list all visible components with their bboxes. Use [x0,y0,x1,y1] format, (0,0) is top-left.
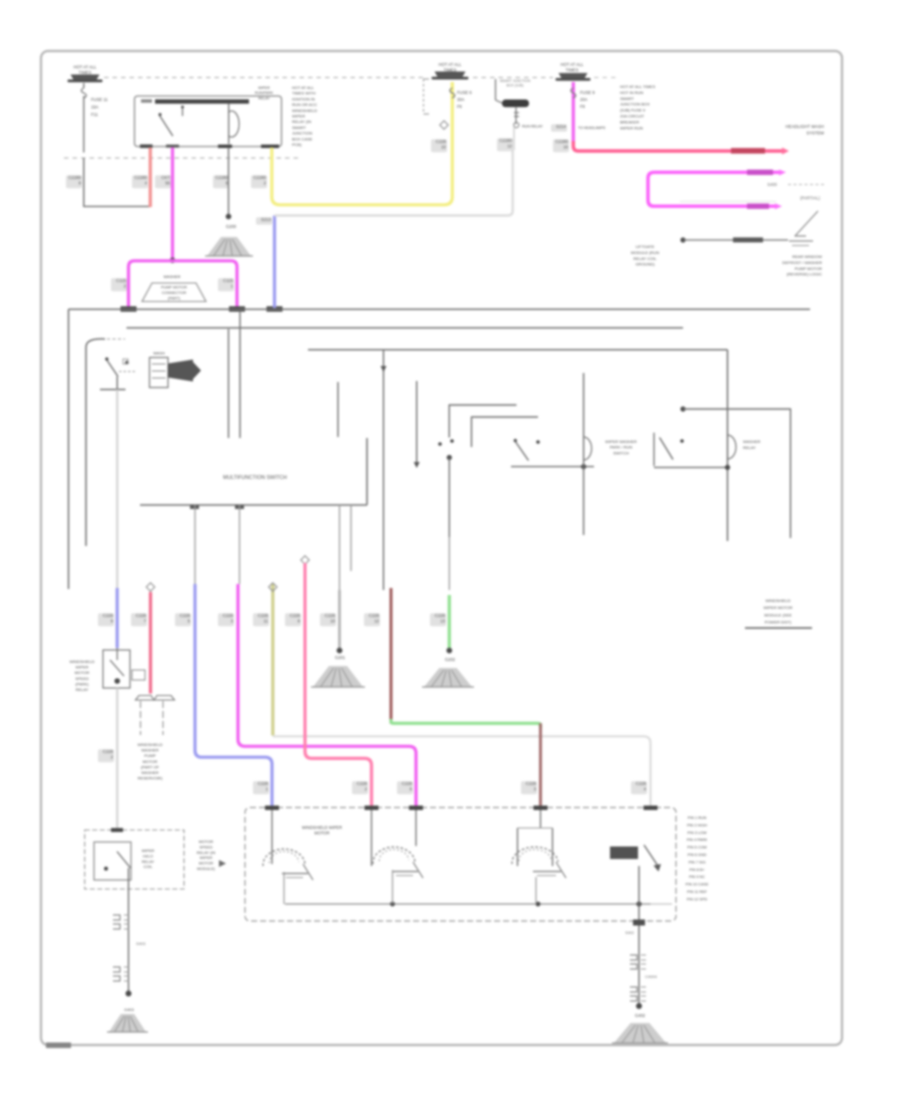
fuse F6 element on yellow wire [450,88,455,98]
svg-text:C228: C228 [258,613,269,618]
svg-text:SMART JUNCTION: SMART JUNCTION [500,79,531,83]
svg-text:PCB): PCB) [292,142,302,147]
svg-text:20A: 20A [580,97,588,102]
svg-text:WASHER: WASHER [743,439,761,444]
svg-text:WIPER: WIPER [200,855,213,860]
magenta leg side labels [111,278,127,291]
svg-text:30A: 30A [457,97,465,102]
black wire with splice dot to Z switch [680,237,685,242]
svg-text:C2280: C2280 [499,138,512,143]
svg-text:HEADLIGHT WASH: HEADLIGHT WASH [786,124,824,129]
svg-text:IGNITION IN: IGNITION IN [292,96,315,101]
svg-text:C228: C228 [436,139,447,144]
connector label on white wire [497,138,513,151]
dashed bracket left of power feed [423,79,425,114]
relay inner contact box [94,842,131,880]
svg-text:LIFTGATE: LIFTGATE [636,244,655,249]
svg-text:RESERVOIR): RESERVOIR) [138,776,163,781]
svg-text:C228: C228 [223,613,234,618]
magenta wire drop to wiper motor [218,613,234,626]
svg-text:SMART: SMART [620,96,634,101]
svg-text:F11: F11 [91,112,99,117]
svg-text:MOTOR: MOTOR [314,831,329,836]
svg-text:HOT AT ALL: HOT AT ALL [438,62,462,67]
svg-text:WASHER: WASHER [141,748,159,753]
relay box header dark label [155,99,249,103]
switch cluster L wire 1 [449,405,516,438]
svg-text:S402: S402 [625,931,634,935]
svg-text:HOT IN RUN: HOT IN RUN [620,90,643,95]
svg-text:REAR WINDOW: REAR WINDOW [792,254,822,259]
wire corner joining red wire [84,205,151,207]
svg-text:S403: S403 [136,941,146,946]
svg-text:CKT: CKT [161,175,170,180]
svg-text:G202: G202 [445,657,456,662]
svg-text:WASH: WASH [153,351,165,356]
svg-text:HOT AT ALL: HOT AT ALL [560,62,584,67]
svg-text:PIN 9 NC: PIN 9 NC [689,875,705,879]
svg-text:C228: C228 [402,781,413,786]
fuse F9 element on magenta wire [571,88,576,98]
olive wire drop [271,584,274,736]
svg-text:PUMP MOTOR: PUMP MOTOR [161,286,187,290]
svg-text:MOTOR: MOTOR [75,670,90,675]
black wire from relay to ground [228,148,230,216]
park switch inside box [610,847,638,860]
green wire drop to ground [448,595,451,648]
svg-text:C228: C228 [369,613,380,618]
ground symbol G200 [207,237,251,256]
connector label on magenta wire [553,139,569,152]
svg-text:SPEED: SPEED [75,676,89,681]
svg-text:FUSE 6: FUSE 6 [457,90,472,95]
dashed bus line from power feed to right [104,77,427,79]
svg-text:PIN 12 SPD: PIN 12 SPD [687,897,708,901]
svg-text:PIN 8 B+: PIN 8 B+ [689,868,705,872]
svg-text:PARK / RUN: PARK / RUN [610,445,633,450]
svg-text:TIMES WITH: TIMES WITH [292,91,316,96]
cam gauge symbol 2 [371,810,373,866]
hook wire to left switch [86,339,105,546]
svg-text:C228: C228 [636,781,647,786]
svg-text:C2280: C2280 [215,175,228,180]
svg-text:CONNECTOR: CONNECTOR [162,291,187,295]
svg-text:F9: F9 [580,104,586,109]
switch contacts lower left cluster [438,442,442,446]
svg-text:TO HEADLAMPS: TO HEADLAMPS [578,126,606,130]
left switch base line [100,389,126,391]
module bottom edge line [140,504,367,506]
dashed bus line second row left [64,157,302,159]
svg-text:G402: G402 [635,1013,646,1018]
svg-text:RELAY (IN: RELAY (IN [197,850,216,855]
svg-text:MOTOR: MOTOR [143,759,158,764]
svg-text:PIN 4 PARK: PIN 4 PARK [687,838,708,842]
ground symbol G201 [313,666,363,687]
stub wires below module bottom [194,505,196,584]
fuse F11 element [81,88,86,98]
svg-text:WIPER: WIPER [142,848,155,853]
svg-text:SWITCH: SWITCH [613,450,629,455]
svg-text:HI/LO: HI/LO [143,853,153,858]
svg-text:WIPER RUN: WIPER RUN [620,125,643,130]
svg-text:BREAKER: BREAKER [620,119,639,124]
svg-text:(REVERSE) LOGIC: (REVERSE) LOGIC [787,272,822,277]
dark red wire down into bottom box [539,723,542,807]
crimson wire drop to washer pump [149,592,152,694]
svg-text:MULTIFUNCTION SWITCH: MULTIFUNCTION SWITCH [223,475,287,481]
yellow wire from relay pin to fuse [272,82,453,205]
fuse F11 wire from power feed [83,83,85,88]
gray wire drop to ground [338,590,341,648]
svg-text:C228: C228 [290,613,301,618]
svg-text:WIPER: WIPER [292,114,305,119]
svg-text:PUMP MOTOR: PUMP MOTOR [795,266,823,271]
svg-text:SPEED: SPEED [199,844,212,849]
washer pump connector trapezoid [142,283,206,302]
svg-text:RELAY: RELAY [258,96,270,100]
svg-text:(PARK): (PARK) [75,681,89,686]
svg-text:MODULE): MODULE) [197,866,216,871]
svg-text:S213: S213 [261,217,272,222]
svg-text:WINDSHIELD: WINDSHIELD [292,108,317,113]
svg-text:HOT AT ALL TIMES: HOT AT ALL TIMES [620,84,655,89]
svg-text:COIL: COIL [143,864,153,869]
pink wire circuit label dark [731,148,765,154]
svg-text:MOTOR: MOTOR [199,861,214,866]
internal bus line inside box [285,903,651,905]
wiper mode switch base [511,466,594,468]
svg-text:WINDSHIELD: WINDSHIELD [765,598,790,603]
magenta loop wire upper run [648,172,780,206]
white wire from left switch down [116,390,118,589]
connector label on yellow wire [431,139,447,152]
blue wire corner into bottom box [195,584,272,807]
park relay dashed box [85,830,184,889]
svg-text:15A: 15A [91,105,99,110]
svg-text:WASHER: WASHER [164,274,181,279]
svg-text:WIPER: WIPER [75,665,88,670]
svg-text:WIPER: WIPER [258,86,270,90]
svg-text:JUNCTION: JUNCTION [292,131,312,136]
svg-text:(PART): (PART) [168,297,181,301]
module right edge partial [366,438,368,505]
svg-text:PIN 3 LOW: PIN 3 LOW [687,831,707,835]
relay coil inside box [228,104,230,144]
svg-text:C228: C228 [526,781,537,786]
svg-text:RUN RELAY: RUN RELAY [522,125,543,129]
svg-text:RELAY: RELAY [743,445,756,450]
svg-text:POWER DIST): POWER DIST) [765,620,792,625]
svg-text:S214: S214 [556,124,567,129]
switch cluster L wire 2 [472,417,539,447]
relay box bottom pins [140,144,153,148]
magenta loop wire lower run [747,204,769,209]
white wire continuation of olive to bottom box [273,736,651,807]
svg-text:12: 12 [507,144,512,149]
svg-text:11: 11 [264,619,269,624]
splice diamond on yellow wire [440,121,448,129]
svg-text:C228: C228 [325,613,336,618]
svg-text:JUNCTION BOX: JUNCTION BOX [620,102,650,107]
svg-text:C4004: C4004 [645,974,658,979]
svg-text:RELAY COIL: RELAY COIL [633,256,657,261]
svg-text:(PARTIAL): (PARTIAL) [800,196,820,201]
right switch base [654,466,728,468]
ground symbol G202 [424,668,472,687]
relay component left middle [103,650,130,688]
svg-text:C2280: C2280 [555,139,568,144]
svg-text:FUSE 9: FUSE 9 [580,90,595,95]
svg-text:C228: C228 [136,613,147,618]
ground wire from park switch [638,866,640,1006]
parallel wires below magenta connectors [228,329,230,438]
svg-text:GROUND): GROUND) [635,262,655,267]
svg-text:SMART: SMART [292,125,306,130]
svg-text:PIN 11 REF: PIN 11 REF [687,890,708,894]
magenta wire split junction dot [170,258,176,264]
white wire below relay to bottom box [116,688,118,830]
svg-text:WIPER WASHER: WIPER WASHER [605,439,637,444]
bus junction nubs on bus wire 1 [121,306,137,311]
svg-text:C228: C228 [103,613,114,618]
circuit breaker symbol [502,100,529,108]
svg-text:C115: C115 [116,278,127,283]
svg-text:C228: C228 [435,613,446,618]
svg-text:20A CIRCUIT: 20A CIRCUIT [620,114,645,119]
svg-text:WINDSHIELD WIPER: WINDSHIELD WIPER [302,825,342,830]
svg-text:C228: C228 [258,781,269,786]
svg-text:RELAY: RELAY [76,687,89,692]
svg-text:MODULE (RUN: MODULE (RUN [631,250,659,255]
cam gauge symbol 1 [271,810,273,864]
svg-text:C2280: C2280 [68,175,81,180]
svg-text:FUSE 11: FUSE 11 [91,97,108,102]
svg-text:C115: C115 [223,278,234,283]
rear washer Z switch symbol [795,211,818,236]
svg-text:(SJB) FUSE 9: (SJB) FUSE 9 [620,108,646,113]
svg-text:C228: C228 [180,613,191,618]
svg-text:RELAY: RELAY [142,859,155,864]
right coil bulge [728,435,737,459]
ground symbol G403 [109,1014,146,1032]
arrow stub wire mid cluster [416,381,418,462]
svg-text:MODULE (SEE: MODULE (SEE [764,612,792,617]
svg-text:PIN 1 RUN: PIN 1 RUN [688,816,707,820]
svg-text:BOX (SJB): BOX (SJB) [506,84,523,88]
magenta wire from relay pin [171,148,174,262]
svg-text:13: 13 [440,619,445,624]
wiper mode switch blade middle [515,441,529,461]
svg-text:WINDSHIELD: WINDSHIELD [137,742,162,747]
bus wire 3 horizontal [308,349,728,351]
wiper relay box K19 [135,96,282,147]
wire left vertical below connector [83,158,85,207]
svg-text:TIMES: TIMES [79,70,92,75]
svg-text:SYSTEM: SYSTEM [806,130,824,135]
svg-text:C228: C228 [103,749,114,754]
stub wire left of switch cluster [337,382,339,437]
svg-text:56: 56 [165,181,170,186]
washer pump leads [140,701,142,735]
svg-text:F6: F6 [457,104,463,109]
svg-text:RELAY (IN: RELAY (IN [292,119,311,124]
svg-text:PIN 7 SIG: PIN 7 SIG [688,860,705,864]
svg-text:10: 10 [330,619,335,624]
module pin stubs below [190,505,199,509]
svg-text:PIN 6 GND: PIN 6 GND [688,853,707,857]
pink wire horizontal to headlight wash [573,141,782,151]
park coil bulge [584,437,592,460]
washer switch component box [150,358,169,388]
magenta wire corner into bottom box [238,584,416,807]
svg-text:WINDSHIELD: WINDSHIELD [69,659,94,664]
bus wire 3 right corner down [727,350,729,541]
svg-text:22: 22 [441,145,446,150]
svg-text:(PART OF: (PART OF [141,764,160,769]
svg-text:DEFROST / WASHER: DEFROST / WASHER [782,260,822,265]
svg-text:RUN OR ACC: RUN OR ACC [292,102,317,107]
park coil wire vertical [583,373,585,535]
pink wire corner into bottom box [305,563,372,807]
ground symbol G402 [614,1023,666,1043]
svg-text:12: 12 [374,619,379,624]
svg-text:HOT AT ALL: HOT AT ALL [73,65,97,70]
relay pin stub inside box [182,108,184,116]
svg-text:C228: C228 [357,781,368,786]
svg-text:WASHER: WASHER [141,770,159,775]
magenta loop wire label upper [747,170,773,175]
svg-text:PIN 5 COM: PIN 5 COM [687,846,706,850]
cam gauge symbol 3 [540,810,542,828]
svg-text:G403: G403 [124,1007,135,1012]
magenta wire split to washer pump [129,261,238,308]
bus wire 2 horizontal [127,327,684,329]
bus wire 1 horizontal [69,308,811,310]
pink wire drop [301,556,309,564]
circuit breaker stem [515,107,517,124]
svg-text:WIPER MOTOR: WIPER MOTOR [763,605,792,610]
svg-text:BOX CASE: BOX CASE [292,136,313,141]
svg-text:MOTOR: MOTOR [199,839,214,844]
left switch dashed link [119,371,137,373]
right cluster splice dot and wire [680,406,685,411]
svg-text:C2280: C2280 [134,175,147,180]
box entry junction blocks [265,806,279,810]
connector row labels under dashed line [66,175,82,188]
wiper motor assembly box dashed [245,808,676,922]
drop wire with arrow from bus 3 [383,350,385,590]
page number text bottom-left [46,1043,71,1049]
wire below relay to ground [128,868,130,993]
splice circle on breaker stem [514,122,519,127]
blue wire drop to wiper relay module [116,588,119,648]
bus wire 1 left drop [68,309,70,589]
svg-text:S400: S400 [767,182,777,187]
washer pump connector comb bar [136,696,175,701]
magenta wire top from fuse [572,82,575,143]
yellow fuse wire vertical [451,82,454,99]
splice label on magenta wire [551,124,567,132]
svg-text:C2280: C2280 [253,175,266,180]
svg-text:G200: G200 [226,224,237,229]
svg-text:HOT AT ALL: HOT AT ALL [292,85,315,90]
right washer relay switch [653,433,655,466]
svg-text:16: 16 [563,145,568,150]
relay switch blade inside box [160,115,173,136]
green wire horizontal to bottom box [391,719,541,728]
blue wire stub top [273,216,276,309]
circuit breaker branch wire [495,79,497,100]
washer switch arrow label [168,360,193,382]
dark red wire drop [390,588,393,724]
svg-text:RUN/PARK: RUN/PARK [255,91,274,95]
svg-text:TIMES: TIMES [566,67,579,72]
blue wire drop to wiper motor [175,613,191,626]
white wire horizontal from run circuit [275,150,513,216]
svg-text:PIN 2 HIGH: PIN 2 HIGH [687,823,707,827]
left multifunction switch blade [107,360,119,377]
svg-text:G201: G201 [335,655,346,660]
svg-text:PUMP: PUMP [144,753,156,758]
svg-text:PIN 10 CASE: PIN 10 CASE [685,883,708,887]
red wire from relay pin [149,148,152,208]
